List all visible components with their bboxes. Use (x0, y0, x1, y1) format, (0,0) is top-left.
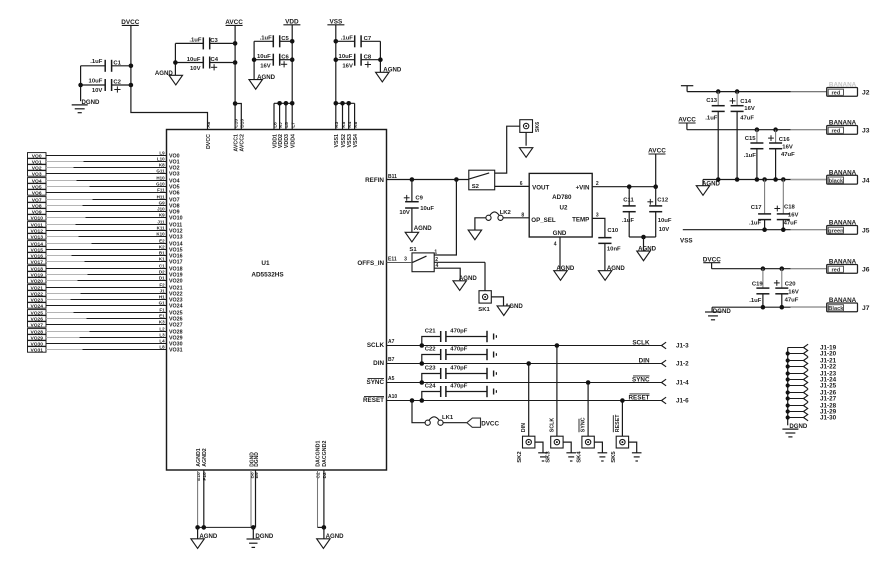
svg-text:BANANA: BANANA (829, 120, 857, 127)
svg-text:C10: C10 (233, 119, 239, 128)
node VO24 (28, 301, 183, 310)
op-amp U2 AD780 voltage reference (529, 173, 592, 237)
wire REFIN net (387, 177, 469, 182)
ground AGND for C3 C4 (155, 70, 183, 85)
svg-text:F2: F2 (159, 283, 165, 288)
connector pin J1-3 (662, 342, 690, 349)
node VO17 (28, 257, 183, 266)
svg-text:REFIN: REFIN (365, 177, 384, 184)
capacitor C18 47uF 16V polarized (774, 180, 798, 230)
connector pin J1-25 (788, 382, 837, 390)
svg-text:J2: J2 (862, 90, 870, 97)
svg-text:L2: L2 (159, 327, 165, 332)
node VO21 (28, 283, 183, 292)
net label SYNC at J1 (632, 376, 650, 384)
svg-text:K3: K3 (159, 320, 165, 325)
svg-text:G9: G9 (159, 201, 166, 206)
svg-text:D2: D2 (322, 472, 328, 478)
node VO0 (28, 151, 180, 160)
svg-text:VDD4: VDD4 (291, 134, 297, 148)
node VO22 (28, 289, 183, 298)
node VO11 (28, 220, 183, 229)
wire DGND drop (252, 527, 254, 539)
connector pin J1-20 (788, 350, 837, 358)
svg-text:VO17: VO17 (169, 260, 183, 266)
node VO31 (28, 345, 183, 354)
svg-text:L4: L4 (159, 339, 165, 344)
svg-text:VO31: VO31 (169, 348, 183, 354)
capacitor C20 47uF 16V polarized (774, 269, 799, 308)
svg-text:C17: C17 (751, 205, 763, 211)
svg-text:DVCC: DVCC (206, 134, 212, 149)
ground AGND at J4 (696, 181, 720, 196)
wire U1 OFFS_IN to S1 pin 3 (357, 257, 412, 268)
svg-text:DACGND1: DACGND1 (316, 441, 322, 467)
wire J3 net (687, 127, 827, 132)
socket SK6 (520, 120, 541, 133)
switch S2 (469, 170, 495, 190)
svg-text:10uF: 10uF (339, 54, 353, 60)
wire U2 +VIN pin 2 to AVCC (592, 181, 658, 189)
svg-text:.1uF: .1uF (622, 218, 635, 224)
svg-text:G11: G11 (156, 169, 165, 174)
connector pin J1-24 (788, 376, 837, 384)
svg-text:K5: K5 (341, 121, 347, 127)
net label SCLK at J1 (632, 340, 650, 347)
svg-text:C6: C6 (281, 54, 289, 60)
svg-text:C21: C21 (425, 329, 437, 335)
svg-text:10V: 10V (399, 210, 410, 216)
capacitor C7 .1uF (336, 35, 381, 47)
svg-text:red: red (831, 129, 840, 135)
node VO19 (28, 270, 183, 279)
wire REFIN to S1 pin 1 (434, 180, 456, 256)
ground at SK2 (535, 442, 548, 461)
wire C7-C8 right rail (378, 41, 383, 72)
U1 pin SYNC A5 (367, 376, 395, 386)
svg-text:E1: E1 (159, 314, 165, 319)
capacitor C24 470pF (420, 384, 497, 403)
svg-text:C4: C4 (211, 57, 219, 63)
node VO6 (28, 188, 180, 197)
svg-text:B7: B7 (388, 357, 395, 363)
svg-text:16V: 16V (744, 106, 755, 112)
svg-text:C19: C19 (752, 282, 764, 288)
svg-text:47uF: 47uF (781, 152, 795, 158)
svg-text:C20: C20 (785, 282, 797, 288)
svg-text:RESET: RESET (615, 414, 621, 432)
svg-text:SK3: SK3 (545, 451, 551, 463)
svg-text:K7: K7 (278, 121, 284, 127)
svg-text:L9: L9 (159, 151, 165, 156)
svg-text:AD780: AD780 (552, 194, 572, 201)
svg-text:F10: F10 (202, 472, 208, 481)
svg-text:A5: A5 (388, 376, 395, 382)
svg-text:C13: C13 (706, 98, 718, 104)
node VO4 (28, 176, 180, 185)
node VO3 (28, 169, 180, 178)
ground AGND under SK6 (519, 132, 532, 157)
svg-text:VO13: VO13 (169, 235, 183, 241)
svg-text:C10: C10 (607, 228, 619, 234)
U1 top pin DVCC A6 (206, 121, 212, 149)
connector pin J1-4 (662, 379, 690, 386)
svg-text:SK1: SK1 (478, 307, 490, 313)
connector pin J1-23 (788, 370, 837, 378)
wire VSS rail and pin bus (334, 25, 355, 130)
svg-text:D10: D10 (240, 119, 246, 128)
svg-text:C15: C15 (745, 136, 757, 142)
svg-text:E2: E2 (159, 239, 165, 244)
svg-text:10V: 10V (659, 227, 670, 233)
capacitor C13 .1uF (705, 92, 724, 180)
capacitor C5 .1uF (254, 35, 292, 47)
node VO8 (28, 201, 180, 210)
power tag DVCC at LK1 (467, 418, 500, 427)
svg-text:VO20: VO20 (169, 279, 183, 285)
connector pin J1-21 (788, 357, 837, 365)
svg-text:6: 6 (520, 181, 523, 187)
svg-text:SCLK: SCLK (632, 340, 650, 347)
U1 top pins VDD1-VDD4 (272, 121, 296, 148)
node VO26 (28, 314, 183, 323)
socket SK3 SCLK (545, 343, 563, 463)
svg-text:47uF: 47uF (740, 115, 754, 121)
svg-text:SYNC: SYNC (581, 417, 587, 432)
ground AGND for C5 C6 (249, 74, 276, 89)
wire C1-C2 left rail (78, 66, 83, 101)
ground AGND at LK2 (468, 230, 481, 240)
U1 pin SCLK A7 (367, 339, 395, 349)
net label RESET at J1 (629, 394, 650, 402)
svg-text:47uF: 47uF (785, 298, 799, 304)
ground at SK5 (629, 442, 642, 461)
svg-text:RESET: RESET (629, 395, 650, 402)
svg-text:16V: 16V (788, 212, 799, 218)
svg-text:Black: Black (828, 306, 844, 312)
svg-text:TEMP: TEMP (572, 216, 589, 223)
svg-text:DVCC: DVCC (481, 420, 499, 427)
U1 bottom pins DACGND1 DACGND2 (316, 441, 328, 528)
svg-text:C2: C2 (113, 80, 121, 86)
ground at SK4 (594, 442, 607, 461)
svg-text:3: 3 (596, 212, 599, 218)
svg-text:E11: E11 (388, 257, 397, 263)
capacitor C23 470pF (420, 366, 497, 385)
wire U2 GND pin 4 to AGND (554, 237, 560, 271)
svg-text:+VIN: +VIN (576, 185, 590, 192)
svg-text:VDD2: VDD2 (278, 134, 284, 148)
svg-text:H10: H10 (156, 176, 165, 181)
wire U2 TEMP pin 3 to C10 (592, 212, 605, 237)
capacitor C22 470pF (420, 347, 497, 366)
svg-text:VO24: VO24 (30, 303, 43, 309)
power flag VDD (283, 19, 300, 26)
capacitor C21 470pF (420, 329, 497, 348)
svg-text:16V: 16V (782, 144, 793, 150)
wire DVCC rail to U1 pin A6 (129, 25, 208, 129)
svg-text:470pF: 470pF (450, 329, 467, 335)
ground DGND at J7 (705, 308, 731, 320)
svg-text:L3: L3 (159, 333, 165, 338)
switch S1 (404, 247, 438, 272)
svg-text:K6: K6 (353, 121, 359, 127)
svg-text:F1: F1 (159, 308, 165, 313)
ground AGND at U2 GND (554, 265, 575, 280)
svg-text:VO6: VO6 (169, 191, 180, 197)
svg-text:SCLK: SCLK (367, 342, 385, 349)
svg-text:C3: C3 (210, 38, 218, 44)
svg-text:VDD3: VDD3 (284, 134, 290, 148)
svg-text:10nF: 10nF (607, 246, 621, 252)
capacitor C19 .1uF (749, 269, 769, 308)
svg-text:VO24: VO24 (169, 304, 183, 310)
connector pin J1-22 (788, 363, 837, 371)
socket SK1 (478, 291, 491, 313)
svg-text:.1uF: .1uF (749, 220, 762, 226)
wire S2 to U2 VOUT pin 6 (495, 181, 530, 187)
svg-text:10uF: 10uF (658, 218, 672, 224)
wire C5-C6 left rail (252, 41, 257, 79)
wire J7 DGND net (712, 305, 827, 312)
capacitor C11 .1uF (622, 187, 636, 237)
capacitor C14 47uF 16V polarized (730, 92, 755, 180)
ground AGND under C9 (405, 225, 432, 242)
svg-text:VO13: VO13 (30, 234, 43, 240)
svg-text:10uF: 10uF (89, 79, 103, 85)
U1 top pins AVCC1 AVCC2 (233, 119, 245, 152)
capacitor C1 .1uF (81, 59, 131, 72)
svg-text:DIN: DIN (521, 423, 527, 432)
capacitor C3 .1uF (175, 37, 235, 49)
svg-text:U2: U2 (560, 204, 568, 211)
svg-text:DIN: DIN (373, 360, 384, 367)
svg-text:C22: C22 (425, 347, 437, 353)
power flag AVCC at J3 (678, 117, 696, 130)
svg-text:J1-25: J1-25 (820, 383, 837, 390)
svg-text:AGND1: AGND1 (196, 448, 202, 467)
svg-text:3: 3 (404, 256, 407, 262)
connector pin J1-29 (788, 408, 837, 416)
node VO27 (28, 320, 183, 329)
node VO20 (28, 276, 183, 285)
ground AGND at U1 DACGND pins (317, 533, 344, 549)
svg-text:C1: C1 (159, 264, 165, 269)
svg-text:G10: G10 (156, 182, 165, 187)
svg-text:G1: G1 (159, 301, 166, 306)
svg-text:A6: A6 (206, 121, 212, 127)
svg-text:10V: 10V (92, 88, 103, 94)
svg-text:J1-2: J1-2 (676, 361, 689, 368)
svg-text:SCLK: SCLK (549, 418, 555, 433)
svg-text:C11: C11 (623, 198, 634, 204)
U1 bottom pins AGND1 AGND2 (196, 448, 208, 527)
wire SYNC net (387, 382, 662, 384)
svg-text:DACGND2: DACGND2 (322, 441, 328, 467)
U1 top pins VSS1-VSS4 (334, 121, 359, 147)
svg-text:L6: L6 (272, 122, 278, 128)
svg-text:J10: J10 (157, 207, 165, 212)
svg-text:470pF: 470pF (450, 347, 467, 353)
svg-text:D1: D1 (159, 276, 165, 281)
svg-text:AGND2: AGND2 (202, 448, 208, 467)
U1 pin REFIN B11 (365, 174, 397, 184)
svg-text:VO10: VO10 (30, 215, 43, 221)
svg-text:.1uF: .1uF (341, 36, 354, 42)
svg-text:VO31: VO31 (30, 347, 43, 353)
svg-text:16V: 16V (260, 63, 271, 69)
svg-text:16V: 16V (342, 63, 353, 69)
svg-text:SK2: SK2 (517, 451, 523, 463)
svg-text:C9: C9 (415, 196, 423, 202)
ground AGND under C10 (598, 265, 625, 280)
node VO28 (28, 327, 183, 336)
connector pin J1-19 (788, 344, 837, 352)
connector pin J1-30 (788, 414, 837, 422)
svg-text:.1uF: .1uF (749, 298, 762, 304)
connector pin J1-28 (788, 402, 837, 410)
wire S1 pin 4 to AGND (434, 268, 460, 281)
wire DACGND tie (318, 525, 327, 539)
svg-text:C8: C8 (364, 54, 372, 60)
node VO13 (28, 232, 183, 241)
svg-text:C14: C14 (740, 99, 752, 105)
connector J7 banana black (791, 297, 870, 312)
svg-text:VSS4: VSS4 (353, 134, 359, 148)
svg-text:DIN: DIN (639, 358, 650, 365)
connector pin J1-2 (662, 360, 690, 367)
svg-text:B9: B9 (254, 472, 260, 478)
wire J2 net (687, 89, 827, 94)
svg-text:C23: C23 (425, 366, 437, 372)
wire analog-digital ground tie (195, 525, 255, 530)
svg-text:J3: J3 (862, 128, 870, 135)
svg-text:VO27: VO27 (169, 323, 183, 329)
connector pin J1-6 (662, 397, 690, 404)
wire AVCC rail to U1 pins C10 D10 (233, 25, 242, 129)
svg-text:16V: 16V (788, 290, 799, 296)
svg-text:green: green (828, 229, 844, 235)
svg-text:E10: E10 (196, 472, 202, 481)
svg-text:AGND: AGND (414, 225, 433, 232)
U1 bottom pins DGND DGND (249, 452, 260, 528)
net label DIN at J1 (639, 358, 650, 365)
svg-text:K3: K3 (334, 121, 340, 127)
svg-text:AVCC1: AVCC1 (233, 134, 239, 152)
svg-text:VO27: VO27 (30, 322, 43, 328)
svg-text:47uF: 47uF (784, 220, 798, 226)
svg-text:BANANA: BANANA (829, 259, 857, 266)
link LK2 on OP_SEL (475, 210, 529, 230)
svg-text:GND: GND (553, 230, 567, 237)
svg-text:VO10: VO10 (169, 216, 183, 222)
svg-text:J1-30: J1-30 (820, 415, 837, 422)
svg-text:J1: J1 (160, 289, 166, 294)
svg-text:SYNC: SYNC (367, 379, 385, 386)
node VO2 (28, 163, 180, 172)
svg-text:C24: C24 (425, 384, 437, 390)
svg-text:10uF: 10uF (420, 206, 434, 212)
wire J4 AGND bus (703, 177, 827, 186)
svg-text:VO6: VO6 (32, 190, 42, 196)
capacitor C10 10nF (598, 228, 621, 271)
node VO14 (28, 239, 183, 248)
capacitor C17 .1uF (749, 180, 771, 230)
svg-text:H11: H11 (157, 195, 166, 200)
svg-text:K4: K4 (347, 121, 353, 127)
svg-text:OP_SEL: OP_SEL (531, 217, 556, 224)
svg-text:K9: K9 (159, 213, 165, 218)
node VO30 (28, 339, 183, 348)
svg-text:470pF: 470pF (450, 366, 467, 372)
U1 pin DIN B7 (373, 357, 394, 367)
node VO7 (28, 195, 180, 204)
power flag AVCC (225, 19, 243, 26)
svg-text:B1: B1 (159, 251, 165, 256)
capacitor C15 .1uF (744, 130, 764, 180)
ground AGND under C11 C12 (637, 245, 657, 260)
connector J3 banana red (791, 120, 870, 135)
svg-text:10V: 10V (190, 66, 201, 72)
svg-text:VO3: VO3 (32, 171, 42, 177)
svg-text:F11: F11 (157, 188, 165, 193)
wire SK1 to AGND (491, 297, 503, 306)
power flag unnamed at J2 (681, 86, 693, 92)
connector J5 banana green (791, 220, 870, 235)
svg-text:SK4: SK4 (577, 451, 583, 463)
svg-text:J7: J7 (862, 305, 870, 312)
svg-text:8: 8 (521, 213, 524, 219)
svg-text:C7: C7 (364, 36, 372, 42)
wire VDD rail and pin bus (274, 25, 295, 130)
node VO29 (28, 333, 183, 342)
svg-text:VO17: VO17 (30, 259, 43, 265)
connector pin J1-26 (788, 389, 837, 397)
node VO12 (28, 226, 183, 235)
svg-text:J1-20: J1-20 (820, 351, 837, 358)
svg-text:C1: C1 (113, 61, 121, 67)
capacitor C16 47uF 16V polarized (768, 130, 795, 180)
node VO18 (28, 264, 183, 273)
capacitor C8 10uF 16V (336, 54, 381, 70)
power flag DVCC (121, 19, 139, 26)
wire AGND drop (197, 527, 199, 538)
svg-text:K10: K10 (156, 232, 165, 237)
svg-text:C12: C12 (657, 198, 669, 204)
svg-text:J4: J4 (862, 178, 870, 185)
svg-text:2: 2 (596, 181, 599, 187)
node VO23 (28, 295, 183, 304)
svg-text:L8: L8 (159, 345, 165, 350)
svg-text:BANANA: BANANA (829, 82, 857, 89)
link LK1 to DVCC (410, 398, 467, 425)
svg-text:.1uF: .1uF (90, 59, 103, 65)
svg-text:J1-22: J1-22 (820, 364, 837, 371)
svg-text:J1-6: J1-6 (676, 398, 689, 405)
connector J4 banana black (791, 169, 870, 184)
ground DGND at J1 (782, 423, 808, 437)
node VO15 (28, 245, 183, 254)
svg-text:AVCC2: AVCC2 (240, 134, 246, 152)
socket SK2 DIN (517, 361, 535, 463)
svg-text:VO20: VO20 (30, 278, 43, 284)
svg-text:10uF: 10uF (187, 57, 201, 63)
svg-text:J1-27: J1-27 (820, 396, 837, 403)
svg-text:black: black (829, 178, 844, 184)
svg-text:VOUT: VOUT (532, 185, 549, 192)
svg-text:A10: A10 (388, 394, 397, 400)
svg-text:OFFS_IN: OFFS_IN (357, 260, 384, 267)
